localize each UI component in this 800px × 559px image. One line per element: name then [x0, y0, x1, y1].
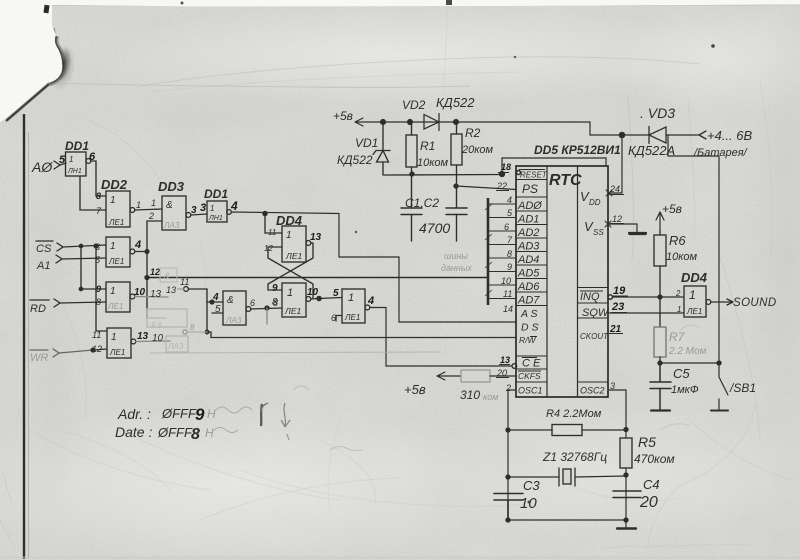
svg-text:ЛЕ1: ЛЕ1 — [284, 306, 301, 316]
svg-text:AD7: AD7 — [517, 295, 540, 307]
svg-text:10: 10 — [520, 495, 537, 512]
svg-text:ЛА3: ЛА3 — [225, 316, 242, 325]
svg-text:VD1: VD1 — [355, 136, 378, 150]
svg-text:&: & — [166, 200, 173, 211]
svg-text:SS: SS — [593, 228, 604, 237]
svg-text:ЛЕ1: ЛЕ1 — [285, 251, 302, 261]
svg-text:C3: C3 — [523, 478, 540, 493]
svg-text:1: 1 — [111, 332, 117, 343]
svg-text:RTC: RTC — [549, 172, 582, 189]
svg-text:DD2: DD2 — [101, 177, 128, 192]
svg-text:1: 1 — [69, 155, 73, 164]
svg-text:6: 6 — [95, 242, 100, 252]
svg-text:1: 1 — [151, 198, 156, 208]
svg-text:10: 10 — [501, 276, 511, 286]
svg-text:1: 1 — [110, 241, 116, 252]
svg-text:3: 3 — [191, 205, 197, 216]
svg-text:12: 12 — [264, 244, 273, 253]
svg-text:C E: C E — [522, 358, 541, 370]
svg-text:R/W: R/W — [519, 335, 537, 345]
svg-text:18: 18 — [501, 162, 511, 172]
svg-text:1: 1 — [210, 204, 214, 213]
svg-text:13: 13 — [166, 285, 176, 295]
svg-text:DD: DD — [589, 198, 601, 207]
svg-text:AD5: AD5 — [517, 268, 540, 280]
svg-text:AØ: AØ — [31, 159, 53, 175]
svg-text:9 6: 9 6 — [151, 321, 163, 330]
svg-text:DD4: DD4 — [681, 270, 708, 285]
svg-text:DD4: DD4 — [276, 213, 303, 228]
svg-text:6: 6 — [250, 298, 255, 308]
svg-text:ЛА3: ЛА3 — [163, 221, 180, 230]
svg-text:8: 8 — [96, 297, 101, 307]
svg-text:11: 11 — [268, 228, 276, 237]
svg-text:4: 4 — [212, 292, 219, 303]
svg-text:Adr. :: Adr. : — [117, 406, 151, 422]
svg-text:6: 6 — [89, 151, 96, 163]
svg-text:A S: A S — [520, 308, 538, 320]
svg-text:КД522: КД522 — [337, 153, 373, 167]
svg-text:1: 1 — [136, 200, 141, 210]
svg-text:PS: PS — [522, 182, 538, 196]
svg-text:11: 11 — [92, 330, 101, 340]
svg-text:CKOUT: CKOUT — [580, 332, 609, 341]
svg-text:1: 1 — [287, 287, 293, 299]
svg-text:8: 8 — [272, 297, 278, 308]
svg-text:SQW: SQW — [582, 307, 610, 319]
svg-text:WR: WR — [30, 352, 48, 364]
svg-text:AD4: AD4 — [517, 254, 539, 266]
svg-text:/Батарея/: /Батарея/ — [693, 147, 748, 159]
svg-text:шины: шины — [444, 251, 468, 261]
svg-text:&: & — [164, 271, 170, 281]
svg-text:3: 3 — [200, 202, 206, 214]
svg-text:9: 9 — [272, 283, 278, 294]
svg-text:10ком: 10ком — [417, 157, 449, 169]
svg-text:CS: CS — [36, 243, 52, 255]
svg-text:DD3: DD3 — [158, 179, 185, 194]
svg-text:VD2: VD2 — [402, 98, 426, 112]
svg-text:КД522А: КД522А — [628, 143, 675, 158]
svg-text:8: 8 — [191, 426, 200, 443]
svg-text:5: 5 — [333, 288, 339, 299]
svg-text:+5в: +5в — [662, 202, 682, 216]
svg-text:10: 10 — [307, 287, 319, 298]
svg-text:4: 4 — [134, 239, 141, 251]
svg-text:4700: 4700 — [419, 220, 450, 236]
svg-text:8: 8 — [507, 249, 512, 259]
svg-text:1: 1 — [110, 286, 116, 297]
svg-text:RD: RD — [30, 303, 46, 315]
svg-text:13: 13 — [137, 331, 149, 342]
svg-text:10: 10 — [134, 287, 146, 298]
svg-text:4: 4 — [230, 199, 238, 213]
svg-text:20ком: 20ком — [461, 144, 494, 156]
svg-text:1: 1 — [677, 305, 681, 314]
svg-text:R7: R7 — [669, 330, 686, 344]
svg-text:6: 6 — [504, 222, 509, 232]
svg-text:12: 12 — [92, 344, 102, 354]
svg-text:11: 11 — [180, 277, 189, 287]
svg-text:13: 13 — [150, 289, 162, 300]
svg-text:КД522: КД522 — [436, 95, 475, 110]
svg-text:23: 23 — [611, 301, 624, 313]
svg-text:ЛЕ1: ЛЕ1 — [108, 257, 124, 266]
svg-text:SOUND: SOUND — [733, 297, 777, 309]
svg-text:ØFFF: ØFFF — [161, 406, 197, 421]
svg-text:22: 22 — [496, 181, 507, 191]
svg-text:INQ: INQ — [580, 291, 600, 303]
svg-text:1: 1 — [348, 292, 354, 304]
svg-text:10: 10 — [152, 333, 164, 344]
svg-text:H: H — [205, 426, 214, 440]
svg-text:ЛН1: ЛН1 — [67, 168, 82, 175]
svg-text:+5в: +5в — [404, 382, 426, 397]
svg-text:20: 20 — [639, 494, 658, 511]
svg-text:19: 19 — [613, 285, 626, 297]
svg-text:8: 8 — [96, 191, 101, 201]
svg-text:ЛЕ1: ЛЕ1 — [344, 313, 360, 322]
svg-text:R2: R2 — [465, 126, 481, 140]
svg-text:+5в: +5в — [333, 109, 353, 123]
svg-text:ЛЕ1: ЛЕ1 — [107, 302, 123, 311]
svg-text:13: 13 — [310, 232, 322, 243]
svg-text:9: 9 — [507, 262, 512, 272]
svg-text:470ком: 470ком — [634, 452, 675, 466]
svg-text:4: 4 — [367, 295, 374, 307]
svg-text:Z1 32768Гц: Z1 32768Гц — [542, 450, 607, 464]
svg-text:AD2: AD2 — [517, 227, 539, 239]
svg-text:2: 2 — [675, 289, 681, 298]
svg-text:1: 1 — [110, 195, 116, 206]
svg-text:4: 4 — [507, 195, 512, 205]
svg-text:ком: ком — [483, 392, 498, 402]
svg-text:9: 9 — [195, 405, 205, 424]
svg-text:A1: A1 — [36, 260, 50, 272]
svg-text:ØFFF: ØFFF — [157, 425, 193, 440]
svg-text:+4... 6В: +4... 6В — [707, 128, 752, 143]
svg-text:AD3: AD3 — [517, 241, 540, 253]
svg-text:ЛЕ1: ЛЕ1 — [686, 307, 702, 316]
svg-text:C1,C2: C1,C2 — [405, 196, 439, 210]
svg-text:5: 5 — [59, 154, 66, 166]
svg-text:данных: данных — [441, 263, 473, 273]
svg-text:R1: R1 — [420, 139, 435, 153]
svg-text:D S: D S — [521, 322, 539, 334]
svg-text:C4: C4 — [643, 477, 660, 492]
svg-text:5: 5 — [215, 304, 221, 315]
svg-text:12: 12 — [612, 214, 622, 224]
svg-text:8: 8 — [190, 323, 195, 332]
svg-text:CKFS: CKFS — [518, 371, 541, 381]
svg-text:1: 1 — [689, 288, 696, 302]
svg-text:310: 310 — [460, 388, 480, 402]
svg-text:1: 1 — [286, 230, 292, 241]
svg-text:11: 11 — [503, 289, 512, 299]
svg-text:&: & — [227, 295, 234, 306]
svg-text:13: 13 — [500, 355, 510, 365]
svg-text:2.2 Мом: 2.2 Мом — [668, 346, 707, 357]
svg-text:DD5 КР512ВИ1: DD5 КР512ВИ1 — [534, 143, 621, 157]
svg-text:/SB1: /SB1 — [729, 381, 756, 395]
svg-text:DD1: DD1 — [65, 139, 89, 153]
svg-text:OSC2: OSC2 — [580, 386, 605, 396]
svg-text:H: H — [207, 407, 216, 421]
svg-text:AD6: AD6 — [517, 281, 540, 293]
svg-text:ЛН1: ЛН1 — [208, 215, 223, 222]
svg-text:24: 24 — [609, 184, 620, 194]
svg-text:DD1: DD1 — [204, 187, 228, 201]
svg-text:6: 6 — [331, 313, 336, 323]
svg-text:R4 2.2Мом: R4 2.2Мом — [546, 408, 602, 420]
svg-text:ADØ: ADØ — [517, 200, 543, 212]
svg-text:OSC1: OSC1 — [518, 386, 543, 396]
svg-text:Date :: Date : — [115, 424, 152, 440]
svg-text:. VD3: . VD3 — [640, 105, 675, 121]
svg-text:2: 2 — [148, 211, 154, 221]
svg-text:AD1: AD1 — [517, 214, 539, 226]
svg-text:12: 12 — [150, 267, 160, 277]
svg-text:ЛЕ1: ЛЕ1 — [109, 348, 125, 357]
svg-text:9: 9 — [96, 284, 101, 294]
svg-text:14: 14 — [503, 304, 513, 314]
svg-text:10ком: 10ком — [666, 251, 698, 263]
svg-text:R5: R5 — [638, 434, 656, 450]
svg-text:RESET: RESET — [520, 171, 548, 180]
svg-text:ЛА3: ЛА3 — [167, 342, 184, 351]
svg-text:R6: R6 — [669, 233, 686, 248]
svg-text:C5: C5 — [673, 366, 690, 381]
svg-text:ЛЕ1: ЛЕ1 — [108, 218, 124, 227]
svg-text:1мкФ: 1мкФ — [671, 384, 699, 396]
